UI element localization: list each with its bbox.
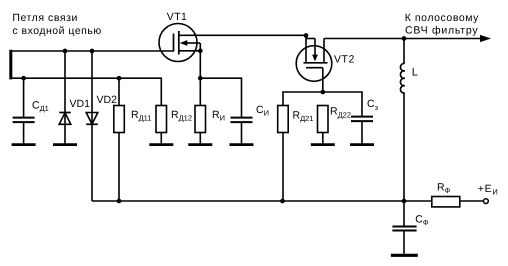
ground under VD1 — [53, 143, 77, 146]
node dot Rд11 top — [117, 76, 122, 81]
output arrow — [480, 35, 491, 42]
resistor Rд22 — [318, 106, 329, 144]
resistor Rд11 — [114, 78, 125, 201]
svg-text:L: L — [412, 66, 418, 78]
node dot Rд21 bottom — [280, 199, 285, 204]
resistor Rд21 — [278, 106, 289, 202]
wire source net — [200, 78, 241, 117]
transistor VT2 — [296, 36, 332, 93]
svg-text:VD2: VD2 — [97, 94, 118, 106]
node dot Cф top — [402, 199, 407, 204]
node dot gate rail — [320, 90, 325, 95]
ground under Cи — [230, 143, 254, 146]
capacitor Cи — [231, 118, 253, 144]
svg-text:VD1: VD1 — [70, 98, 91, 110]
capacitor Cз — [351, 117, 373, 144]
resistor Rф — [432, 197, 484, 207]
terminal +Еи — [484, 199, 489, 204]
svg-text:с входной цепью: с входной цепью — [12, 25, 101, 37]
ground under Cз — [350, 143, 374, 146]
node dot VD2 top — [90, 49, 95, 54]
node dot VD1 top — [63, 49, 68, 54]
ground under Rд12 — [149, 143, 173, 146]
capacitor Cд1 — [13, 78, 35, 143]
wire bottom supply bus — [92, 200, 432, 202]
svg-text:СВЧ фильтру: СВЧ фильтру — [405, 25, 478, 37]
ground under Cф — [391, 254, 418, 257]
node dot source net — [198, 76, 203, 81]
svg-text:Петля связи: Петля связи — [12, 12, 77, 24]
svg-text:VT2: VT2 — [334, 54, 355, 66]
node dot VT2 drain — [304, 33, 309, 38]
ground under Rи — [188, 143, 212, 146]
svg-text:К полосовому: К полосовому — [405, 12, 479, 24]
wire lower bias net — [10, 78, 161, 105]
svg-text:VT1: VT1 — [167, 11, 187, 23]
node dot Rд11 bottom — [117, 199, 122, 204]
capacitor Cф — [392, 201, 416, 254]
inductor L — [400, 39, 404, 202]
diode VD1 — [59, 51, 71, 143]
wire top gate net — [10, 50, 174, 52]
transistor VT1 — [159, 24, 306, 62]
ground under Cд1 — [12, 143, 36, 146]
resistor Rд12 — [156, 106, 167, 144]
ground under Rд22 — [311, 143, 335, 146]
diode VD2 — [86, 51, 98, 201]
node dot L top — [402, 36, 407, 41]
coupling loop thick bar — [9, 50, 12, 80]
node dot Cд1 top — [21, 76, 26, 81]
wire VT2 gate rail — [283, 92, 362, 117]
resistor Rи — [195, 51, 206, 144]
node dot VT1 source — [198, 48, 203, 53]
wire VT2 source to output — [324, 38, 485, 40]
